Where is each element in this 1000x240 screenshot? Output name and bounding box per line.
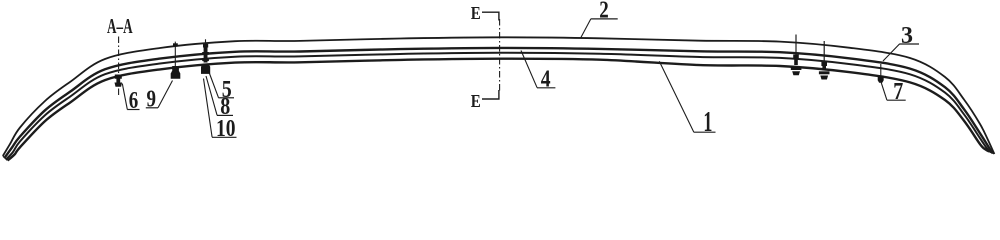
- underline label 1: [694, 131, 716, 133]
- leader line 8: [206, 76, 217, 115]
- underline label 3: [900, 43, 920, 45]
- beam third line (middle leaf, part 4): [6, 53, 991, 160]
- underline label 6: [127, 109, 139, 111]
- leader line 4: [521, 51, 537, 88]
- svg-text:4: 4: [541, 66, 551, 92]
- leader line 2: [581, 19, 591, 39]
- underline label 2: [591, 18, 618, 20]
- svg-text:9: 9: [147, 87, 157, 113]
- left beam tip cap: [3, 156, 8, 160]
- bolt 9 top nut: [173, 43, 178, 46]
- right bolt A shaft: [794, 59, 798, 66]
- beam top leaf line (part 2): [3, 37, 995, 156]
- section marker E top bracket: [482, 12, 499, 20]
- svg-text:E: E: [471, 91, 481, 111]
- svg-text:10: 10: [216, 116, 236, 142]
- section marker E bottom bracket: [482, 90, 499, 99]
- right bolt B shaft: [822, 66, 826, 71]
- leader line 6: [122, 84, 127, 110]
- svg-text:3: 3: [901, 23, 913, 49]
- bolt 5/8/10 foot nut: [201, 64, 210, 74]
- clip 7 stem: [880, 64, 882, 76]
- right bolt B foot base: [820, 76, 828, 80]
- leader line 3: [883, 44, 900, 61]
- svg-text:A–A: A–A: [107, 14, 133, 38]
- leader line 5: [210, 74, 219, 98]
- bolt 9 body: [172, 66, 179, 71]
- beam second line (upper edge of main beam): [4, 48, 992, 158]
- underline label 8: [217, 114, 233, 116]
- leader line 9: [158, 81, 173, 108]
- beam bottom line (lower edge, part 1): [8, 59, 990, 161]
- svg-text:6: 6: [129, 88, 139, 114]
- right bolt B foot rim: [819, 71, 830, 74]
- bolt 9 foot: [171, 71, 181, 79]
- section line A-A (dash-dot): [118, 37, 120, 97]
- svg-text:2: 2: [599, 0, 609, 24]
- section line E-E (dash-dot): [499, 19, 501, 91]
- bolt 5/8/10 head: [203, 44, 208, 48]
- bolt 6 body (below beam, on A-A line): [115, 75, 123, 87]
- bolt 5/8/10 cross bar upper: [202, 52, 209, 55]
- leader line 7: [881, 81, 887, 100]
- clip 7 body: [878, 76, 884, 83]
- right bolt A head: [793, 55, 799, 59]
- underline label 9: [146, 107, 158, 109]
- underline label 4: [537, 87, 555, 89]
- svg-text:7: 7: [893, 79, 903, 105]
- bolt 9 stem: [174, 42, 176, 66]
- underline label 10: [212, 136, 237, 138]
- leader line 10: [204, 79, 213, 138]
- underline label 5: [218, 97, 234, 99]
- svg-text:1: 1: [703, 107, 712, 138]
- bolt 5/8/10 shaft: [204, 48, 208, 63]
- bolt 5/8/10 stem: [205, 39, 207, 45]
- right bolt B head: [821, 62, 827, 66]
- svg-text:E: E: [471, 3, 481, 23]
- right beam tip cap: [989, 151, 994, 153]
- bolt 5/8/10 cross bar lower: [202, 58, 209, 61]
- underline label 7: [887, 99, 906, 101]
- right bolt A stem: [795, 35, 797, 57]
- right bolt A foot rim: [791, 67, 802, 70]
- right bolt B stem: [823, 41, 825, 64]
- leader line 1: [659, 61, 694, 132]
- right bolt A foot base: [792, 71, 800, 75]
